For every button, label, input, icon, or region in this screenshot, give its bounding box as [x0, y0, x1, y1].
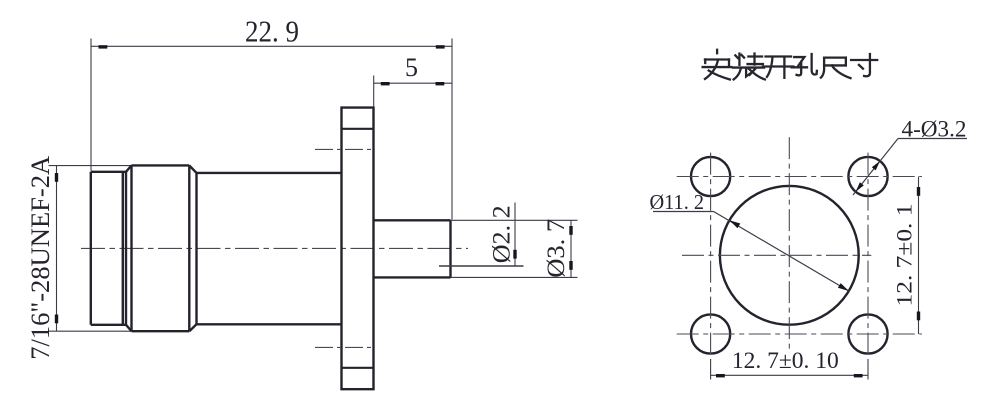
4-D3.2 leader line [853, 139, 898, 196]
dim 22.9 line [91, 45, 452, 47]
hex right flat boundary [188, 165, 190, 331]
hex chamfer bottom-right [189, 324, 196, 331]
4-D3.2 arrow lower-left [856, 182, 864, 191]
hex chamfer top-left [126, 165, 132, 171]
svg-text:Ø11. 2: Ø11. 2 [650, 190, 705, 214]
dim 12.7+-0.1 vertical line [918, 177, 920, 335]
centerline hole col left [710, 153, 712, 360]
dim 22.9 tick right [436, 45, 445, 48]
D11.2 leader line [714, 212, 849, 292]
dim 5 tick right [436, 82, 445, 85]
hole top-left [691, 157, 730, 196]
hex right corner edge / body start [195, 173, 197, 324]
title char CUN (hand-drawn strokes) [851, 54, 877, 76]
hole top-right [848, 157, 887, 196]
dim 7/16-28UNEF-2A line [56, 166, 58, 332]
dim 5 line [374, 82, 452, 84]
inner conductor line [439, 265, 524, 267]
svg-text:Ø2. 2: Ø2. 2 [489, 205, 516, 263]
hex nut left corner edge [125, 172, 127, 325]
dim 12.7+-0.1 tick bottom [917, 312, 920, 321]
dim 12.7+-0.10 bottom line [711, 374, 868, 376]
flange inner line bottom [342, 367, 374, 369]
svg-text:22. 9: 22. 9 [245, 15, 299, 49]
centerline circle horizontal [682, 254, 871, 256]
flange hole centerline bottom [315, 346, 372, 348]
dim D3.7 tick top [569, 226, 572, 235]
dim 5 ext left [373, 76, 375, 108]
D11.2 arrow upper-left [729, 220, 740, 228]
centerline hole row bottom [677, 333, 922, 335]
svg-text:5: 5 [405, 53, 418, 82]
dim 12.7+-0.10 tick left [716, 374, 725, 377]
dim 12.7+-0.10 ext right [867, 359, 869, 380]
dim D2.2 line [514, 203, 516, 267]
hex bottom flat [132, 330, 190, 332]
flange outline [342, 108, 374, 390]
D11.2 arrow lower-right [838, 283, 849, 291]
body top line [197, 172, 342, 174]
body bottom line [197, 323, 342, 325]
svg-text:4-Ø3.2: 4-Ø3.2 [902, 117, 967, 142]
hex left flat boundary [130, 165, 132, 331]
threaded barrel outline [91, 172, 126, 325]
flange hole centerline top [315, 148, 372, 150]
hex chamfer bottom-left [126, 325, 132, 331]
4-D3.2 label underline [898, 138, 967, 140]
dim D2.2 tick [513, 250, 516, 259]
hex top flat [132, 164, 190, 166]
title char CHI (hand-drawn strokes) [821, 58, 851, 79]
svg-text:7/16"-28UNEF-2A: 7/16"-28UNEF-2A [26, 156, 55, 360]
title char ZHUANG (hand-drawn strokes) [733, 54, 765, 80]
dim D3.7 tick bottom [569, 261, 572, 270]
stub top extension line [451, 219, 578, 221]
D11.2 label underline [653, 211, 714, 213]
dim 5 tick left [381, 82, 390, 85]
title char AN (hand-drawn strokes) [703, 50, 732, 80]
dim 7/16 tick top [55, 173, 58, 182]
centerline circle vertical [788, 137, 790, 353]
center axis line [81, 247, 468, 249]
dim 12.7+-0.1 tick top [917, 187, 920, 196]
svg-text:12. 7±0. 10: 12. 7±0. 10 [732, 348, 839, 373]
title char KAI (hand-drawn strokes) [763, 57, 793, 78]
centerline hole col right [867, 153, 869, 360]
hole bottom-right [848, 314, 887, 353]
svg-text:12. 7±0. 1: 12. 7±0. 1 [892, 204, 917, 307]
hex chamfer top-right [189, 165, 196, 173]
thread major diameter thin line bottom [49, 330, 132, 332]
dim D3.7 line [570, 220, 572, 277]
dim 7/16 tick bottom [55, 315, 58, 324]
thread major diameter thin line top [49, 165, 132, 167]
dim 12.7+-0.10 ext left [710, 359, 712, 380]
stub outline [374, 220, 451, 277]
title char KONG (hand-drawn strokes) [792, 54, 817, 75]
hole bottom-left [691, 314, 730, 353]
dim 22.9 tick left [99, 45, 108, 48]
flange inner line top [342, 128, 374, 130]
centerline hole row top [677, 176, 922, 178]
4-D3.2 arrow upper-right [872, 161, 880, 170]
dim 22.9 ext right [451, 39, 453, 220]
stub bottom extension line [451, 276, 578, 278]
dim 12.7+-0.10 tick right [854, 374, 863, 377]
big circle D11.2 [720, 186, 859, 325]
dim 22.9 ext left [90, 39, 92, 171]
svg-text:Ø3. 7: Ø3. 7 [543, 219, 570, 278]
